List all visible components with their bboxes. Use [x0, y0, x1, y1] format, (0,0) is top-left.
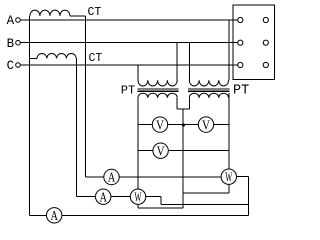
svg-text:C: C	[7, 59, 15, 73]
svg-text:PT: PT	[121, 84, 135, 98]
PT1 secondary winding	[138, 93, 177, 98]
wire W1 bottom to common	[138, 207, 183, 209]
PT2 secondary winding	[189, 93, 228, 98]
ammeter A3	[47, 208, 62, 223]
box terminal A	[238, 17, 243, 22]
terminal A	[16, 18, 21, 23]
wire PT2 secondary right lead down to W2	[228, 93, 230, 169]
terminal B	[16, 40, 21, 45]
svg-text:V: V	[157, 144, 165, 159]
svg-text:PT: PT	[233, 84, 249, 99]
svg-text:A: A	[50, 209, 58, 224]
svg-text:A: A	[7, 14, 15, 28]
wire ammeter line A1	[85, 176, 221, 178]
wire W2 right	[237, 176, 249, 178]
wire PT2 secondary left lead	[188, 98, 190, 109]
wire phase B line	[20, 42, 237, 44]
box terminal B	[238, 40, 243, 45]
svg-text:B: B	[7, 37, 15, 51]
svg-text:V: V	[202, 118, 210, 133]
wire common drop	[182, 109, 184, 208]
wire W2 bottom to common	[183, 192, 229, 194]
svg-text:V: V	[156, 118, 164, 133]
wire W2 right down	[248, 177, 250, 216]
wire ammeter line A2 W1	[76, 196, 161, 198]
wire ammeter line A3	[30, 214, 249, 216]
wire PT2 primary left lead to phase B	[188, 43, 190, 81]
voltmeter V1	[152, 117, 167, 132]
wire W1 right step down	[160, 197, 162, 205]
wire CT2 right secondary lead	[75, 58, 77, 196]
svg-text:CT: CT	[89, 52, 103, 65]
wire PT1 primary left lead to phase C	[137, 65, 139, 80]
load box	[233, 5, 274, 80]
wire W1 right step across	[161, 203, 249, 205]
core PT2	[188, 88, 230, 90]
box terminal c2	[263, 62, 268, 67]
terminal C	[16, 63, 21, 68]
wire phase A line	[20, 19, 237, 21]
PT2 primary winding	[189, 80, 228, 86]
ammeter A2	[96, 189, 111, 204]
CT2 winding	[37, 54, 76, 59]
wire W1 bottom lead	[137, 204, 139, 208]
wire voltmeter line V3	[138, 150, 229, 152]
svg-text:W: W	[135, 190, 142, 205]
svg-text:A: A	[99, 190, 107, 205]
wire PT2 primary right lead to phase A	[228, 20, 230, 80]
svg-text:W: W	[225, 170, 232, 185]
wire CT1 shelf	[70, 15, 86, 17]
wire CT left secondary lead (shared vertical)	[29, 16, 31, 215]
junction dot common on V line	[182, 123, 185, 126]
wire W2 bottom lead	[228, 184, 230, 193]
ammeter A1	[104, 169, 119, 184]
svg-text:A: A	[108, 171, 116, 186]
wire PT1 secondary right lead	[176, 98, 178, 109]
voltmeter V3	[153, 143, 168, 158]
svg-text:CT: CT	[88, 6, 102, 19]
wire CT1 right secondary lead	[84, 16, 86, 177]
wattmeter W1	[130, 189, 145, 204]
PT1 primary winding	[138, 80, 177, 86]
wire secondary common join	[177, 108, 189, 110]
wattmeter W2	[221, 169, 236, 184]
wire voltmeter line V1 V2	[138, 124, 229, 126]
box terminal C	[238, 62, 243, 67]
box terminal a2	[263, 17, 268, 22]
CT1 winding	[30, 10, 70, 16]
wire PT1 secondary left lead down to W1	[137, 98, 139, 189]
wire phase C line	[20, 64, 237, 66]
box terminal b2	[263, 40, 268, 45]
wire PT1 primary right lead to phase B	[176, 43, 178, 81]
wire CT2 left run	[30, 57, 37, 59]
voltmeter V2	[198, 117, 213, 132]
core PT1	[138, 88, 179, 90]
